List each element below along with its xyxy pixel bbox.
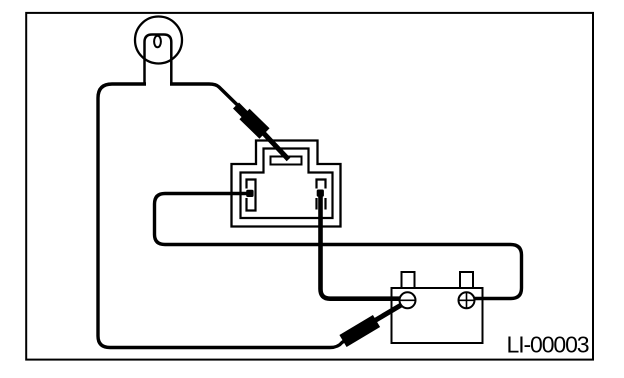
battery B1 body: [392, 288, 483, 343]
connector C1 inner contour: [241, 149, 333, 219]
wire: lamp left lead to battery probe (left/bottom loop): [98, 84, 347, 348]
lamp L1 bulb globe: [135, 17, 182, 64]
node: connector left pin contact dot: [246, 190, 253, 197]
battery B1 minus terminal: [400, 292, 416, 308]
probe P1 body: [245, 114, 265, 134]
probe P2 tip to battery minus: [375, 305, 402, 321]
connector C1 left terminal cavity: [247, 180, 256, 211]
battery B1 plus terminal: [459, 292, 475, 308]
probe P1 tip into connector slot: [263, 133, 289, 160]
probe P1 collar: [236, 106, 247, 117]
connector C1 outer contour: [232, 141, 341, 227]
connector C1 top slot cavity: [271, 157, 302, 165]
wire: connector left pin loop to battery plus: [155, 194, 522, 299]
battery B1 right post: [460, 272, 473, 288]
lamp L1 filament loop: [154, 36, 161, 48]
wire: lamp right lead diagonal to probe P1: [170, 84, 242, 110]
node: connector right pin contact dot: [317, 190, 324, 197]
svg-text:LI-00003: LI-00003: [507, 332, 589, 358]
lamp L1 envelope/base: [145, 35, 172, 86]
wire: connector right pin down to battery minus: [321, 194, 401, 299]
connector C1 right terminal cavity: [317, 180, 326, 210]
probe P2 body: [343, 321, 377, 341]
battery B1 left post: [402, 272, 415, 288]
